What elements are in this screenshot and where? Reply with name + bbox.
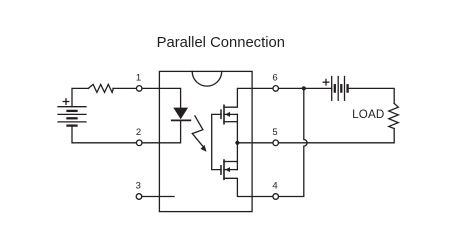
- MOSFET Q2 body stub: [224, 169, 237, 171]
- wire resistor to pin 1: [113, 87, 136, 89]
- junction dot pin 6 / load loop: [302, 86, 306, 90]
- battery V1 negative wire (bottom): [72, 126, 136, 143]
- svg-text:Parallel Connection: Parallel Connection: [157, 35, 285, 51]
- light arrow head: [201, 145, 207, 152]
- wire LED cathode to pin 2: [142, 120, 181, 142]
- pin 5 terminal: [273, 140, 279, 146]
- pin 4 terminal: [273, 194, 279, 200]
- MOSFET Q2 (bottom) gate plate: [220, 166, 222, 174]
- pin 1 terminal: [136, 86, 142, 92]
- LED D1 cathode bar: [172, 119, 191, 121]
- svg-text:4: 4: [272, 181, 277, 192]
- MOSFET Q1 body arrow head: [225, 112, 230, 117]
- MOSFET Q2 drain stub and lead to pin 4: [224, 178, 273, 196]
- battery V1 positive wire (top): [72, 88, 88, 106]
- wire pin 6 to load circuit: [279, 87, 332, 89]
- battery V1 plus sign: [63, 99, 69, 105]
- battery V2 (3-cell, horizontal): [332, 77, 348, 101]
- battery V2 plus sign: [323, 79, 329, 85]
- resistor LOAD (vertical zigzag): [389, 103, 399, 128]
- gate bus connecting Q1 and Q2 gates: [212, 114, 221, 169]
- MOSFET Q1 channel: [223, 105, 225, 123]
- wire pin 1 to LED anode: [142, 88, 181, 107]
- battery V1 (3-cell, vertical): [58, 107, 86, 126]
- svg-text:6: 6: [272, 73, 277, 84]
- IC package U1 outline: [159, 71, 252, 211]
- MOSFET Q2 channel: [223, 160, 225, 179]
- pin 6 terminal: [273, 86, 279, 92]
- resistor R1 (zigzag): [88, 84, 113, 92]
- LED D1 (emitter diode, filled triangle): [173, 108, 188, 120]
- svg-text:1: 1: [136, 73, 141, 84]
- wire LOAD bottom to pin 5: [279, 129, 395, 143]
- wire battery V2 to LOAD resistor: [348, 88, 395, 103]
- light emission arrow (zigzag bolt): [192, 115, 204, 148]
- pin 3 stub (N.C.): [142, 196, 174, 198]
- svg-text:LOAD: LOAD: [352, 108, 384, 121]
- svg-text:3: 3: [136, 181, 141, 192]
- MOSFET Q2 source stub: [224, 161, 237, 163]
- MOSFET Q1/Q2 common source vertical: [236, 114, 238, 169]
- svg-text:5: 5: [272, 127, 277, 138]
- MOSFET Q1 body stub: [224, 113, 237, 115]
- wire common source to pin 5: [237, 142, 273, 144]
- IC pin-1 notch (semicircle): [192, 71, 222, 86]
- pin 2 terminal: [136, 140, 142, 146]
- MOSFET Q2 body arrow head: [225, 167, 230, 172]
- pin 3 terminal: [136, 194, 142, 200]
- svg-text:2: 2: [136, 127, 141, 138]
- MOSFET Q1 source stub: [224, 121, 237, 123]
- MOSFET Q1 drain stub and lead to pin 6: [224, 88, 273, 107]
- MOSFET Q1 (top) gate plate: [220, 110, 222, 118]
- wire pin 6 junction down to pin 4 (with hop over pin-5 wire): [279, 88, 308, 196]
- junction dot at common source / pin 5: [235, 141, 239, 145]
